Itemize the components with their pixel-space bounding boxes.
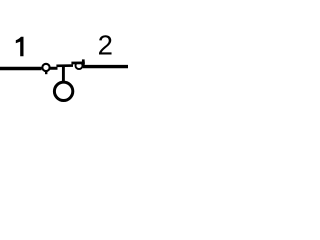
svg-text:2: 2 (98, 30, 113, 61)
